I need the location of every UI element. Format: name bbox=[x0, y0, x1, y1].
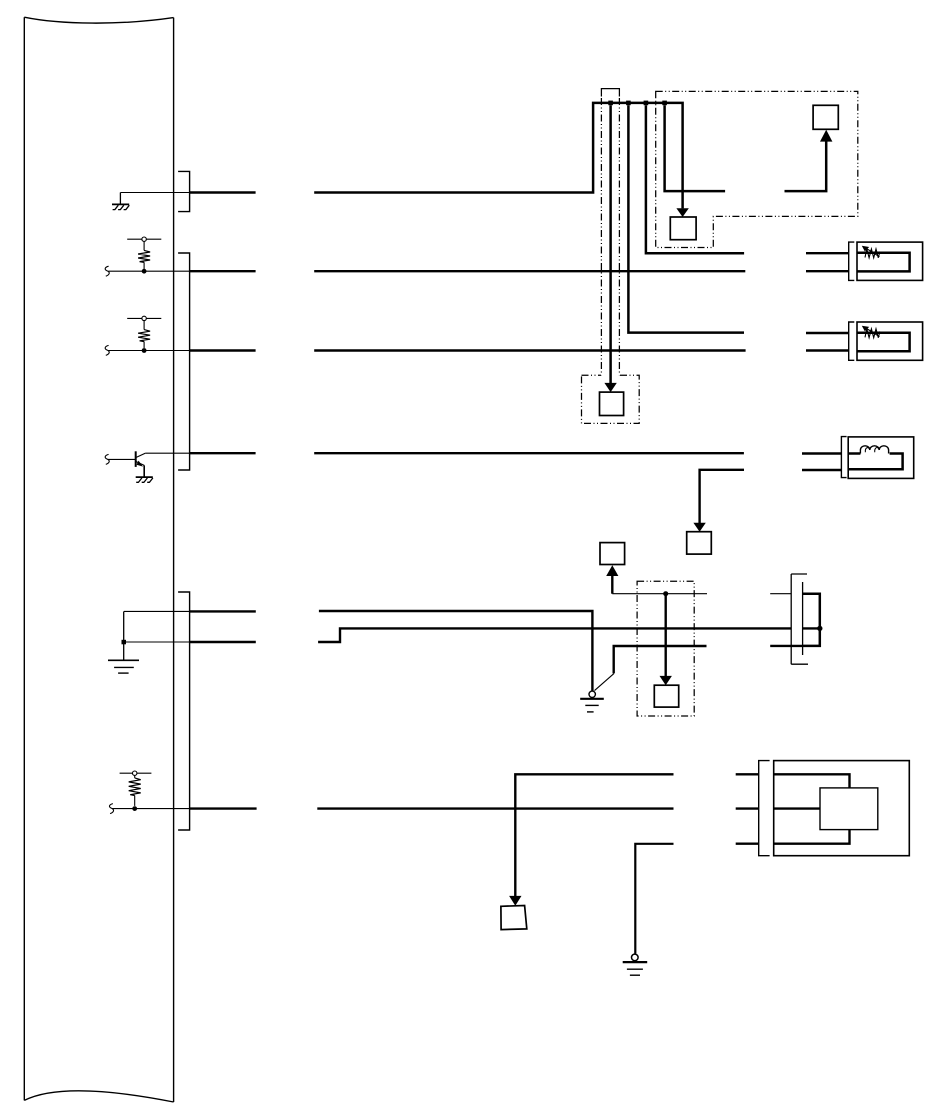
connector bracket A bbox=[178, 171, 190, 211]
wire break squiggle S4 bbox=[109, 804, 113, 814]
wire break squiggle S3 bbox=[105, 454, 109, 464]
wire W10 to ground G5 bbox=[635, 844, 673, 954]
wire W3 right segment bbox=[314, 349, 745, 351]
wire W5 right segment with drop to switch bbox=[319, 611, 593, 691]
shield corridor dash-dot lines bbox=[601, 89, 619, 376]
switch SW1 blade bbox=[595, 674, 614, 691]
wire W2 left segment bbox=[190, 270, 256, 272]
transistor Q1 bbox=[108, 451, 146, 477]
wire break squiggle S2 bbox=[105, 345, 109, 355]
connector C4 bold stub bbox=[770, 645, 802, 647]
resistor R1 (pull-up) bbox=[127, 237, 161, 274]
resistor R2 (pull-up) bbox=[127, 316, 161, 353]
wire with up arrow into M2 bbox=[785, 130, 833, 191]
connector C3 bracket bbox=[841, 437, 846, 478]
connector C3 body bbox=[848, 437, 914, 479]
connector C4 thin stub bbox=[770, 593, 791, 595]
wire break squiggle S1 bbox=[105, 266, 109, 276]
connector C2 body bbox=[857, 322, 923, 360]
bus junction J2 bbox=[626, 101, 631, 106]
bus junction J1 bbox=[608, 101, 613, 106]
module M3 box bbox=[670, 217, 696, 240]
connector C5 body bbox=[774, 761, 910, 856]
wire V4 (bus drop to connector C1 row) bbox=[646, 105, 744, 253]
wire W8 lead bbox=[112, 808, 190, 810]
module M4 box (arrow source) bbox=[600, 543, 625, 565]
wire W2 lead bbox=[108, 270, 189, 272]
big dash-dot enclosure bbox=[656, 91, 858, 247]
connector C3 stubs bbox=[802, 454, 841, 471]
chassis ground G1 bbox=[112, 193, 129, 210]
connector C4 wire tap bbox=[803, 627, 820, 629]
module M6 box bbox=[501, 906, 527, 930]
connector C4 bracket bbox=[791, 574, 808, 664]
module M2 box bbox=[813, 105, 838, 129]
ground G4 (switched body ground) bbox=[580, 691, 604, 712]
left ground tie vertical bbox=[123, 611, 125, 660]
connector C4 jumper loop bbox=[803, 594, 820, 646]
module M5 dashed enclosure bbox=[637, 581, 694, 716]
connector C1 stubs bbox=[806, 253, 849, 271]
connector C1 bracket bbox=[849, 242, 855, 280]
junction J5 bbox=[122, 640, 127, 645]
wire W8 left segment bbox=[190, 807, 257, 809]
connector C5 bracket bbox=[759, 761, 770, 856]
connector C1 body bbox=[857, 242, 923, 280]
wire V3 (bus drop to connector C2 row) bbox=[628, 105, 744, 332]
connector C2 bracket bbox=[849, 322, 855, 360]
bus junction J3 bbox=[644, 101, 649, 106]
arrow into module M3 bbox=[676, 208, 688, 217]
wire W4 lead bbox=[145, 452, 189, 454]
connector C2 internal loop bbox=[857, 333, 910, 352]
wire W4 right segment bbox=[314, 452, 744, 454]
wire W6 lead (pin to left ground tie) bbox=[124, 641, 190, 643]
connector bracket C bbox=[178, 592, 190, 830]
wire W2 right segment bbox=[314, 270, 745, 272]
connector C2 stubs bbox=[806, 333, 849, 351]
wire with up arrow into M4 bbox=[606, 565, 618, 594]
junction J6 bbox=[663, 591, 668, 596]
module M7 box bbox=[687, 532, 712, 554]
chassis ground G2 bbox=[136, 477, 153, 482]
wire W5 left segment bbox=[190, 610, 256, 612]
wire W1 left segment bbox=[190, 191, 256, 193]
module M5 box bbox=[654, 685, 678, 707]
resistor R3 (pull-up) bbox=[120, 771, 152, 811]
wire W3 left segment bbox=[190, 349, 256, 351]
module M1 dashed enclosure bbox=[582, 375, 640, 423]
wire with down arrow into module M5 bbox=[660, 594, 672, 686]
wire V2 (shielded drop to module M1) bbox=[604, 105, 616, 392]
wire W8 right segment bbox=[317, 807, 673, 809]
wire W7 (thin link to C4) bbox=[612, 593, 707, 595]
earth ground G3 bbox=[108, 660, 139, 673]
connector C5 pin wires bbox=[774, 774, 850, 843]
junction J7 bbox=[817, 626, 822, 631]
ECU block bbox=[24, 17, 173, 1102]
bus junction J4 bbox=[662, 101, 667, 106]
connector C1 internal loop bbox=[857, 253, 910, 272]
wire V5 (bus drop to W1 right) bbox=[665, 105, 726, 191]
connector C3 solenoid coil bbox=[848, 446, 902, 469]
wire W4b aux with arrow to module M7 bbox=[693, 470, 744, 532]
wire W9 with drop arrow to module M6 bbox=[509, 774, 673, 905]
wire W5 lead (pin to left ground tie) bbox=[124, 610, 190, 612]
connector C2 heater element bbox=[862, 326, 880, 338]
connector C5 stubs bbox=[736, 774, 759, 843]
connector C4 inner pin bar bbox=[802, 582, 804, 655]
wire W6b drop to switch blade bbox=[614, 646, 707, 673]
module M1 box bbox=[600, 392, 624, 415]
wire W3 lead bbox=[108, 350, 189, 352]
connector C1 heater element bbox=[862, 246, 880, 258]
connector bracket B bbox=[178, 253, 190, 470]
wire W1 to bus, bus, and drop to M3 bbox=[314, 103, 682, 208]
ground G5 (body ground) bbox=[623, 954, 648, 975]
connector C5 inner device box bbox=[820, 788, 878, 830]
wire W6 left segment bbox=[190, 641, 256, 643]
wire W1 lead (pin 1 to G1) bbox=[120, 192, 189, 194]
wire W6 right segment (jogs up, runs to connector C4) bbox=[318, 628, 791, 642]
wire W4 left segment bbox=[190, 452, 256, 454]
